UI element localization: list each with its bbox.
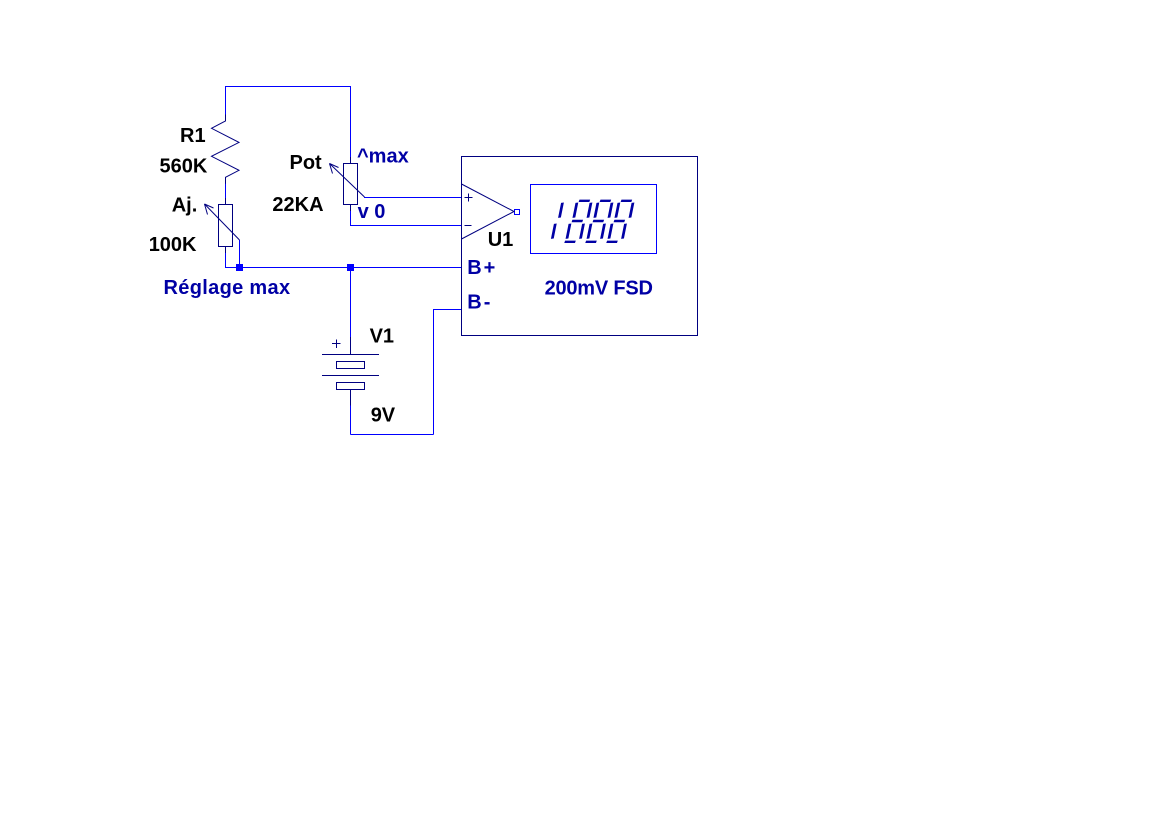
svg-text:9V: 9V (371, 404, 396, 426)
svg-text:Pot: Pot (290, 152, 323, 174)
svg-text:560K: 560K (160, 156, 208, 178)
svg-text:^max: ^max (357, 146, 409, 168)
svg-text:v 0: v 0 (358, 201, 386, 223)
svg-text:Réglage max: Réglage max (164, 277, 291, 299)
svg-text:100K: 100K (149, 234, 197, 256)
svg-text:Aj.: Aj. (172, 194, 198, 216)
svg-text:R1: R1 (180, 125, 206, 147)
svg-text:B+: B+ (467, 257, 497, 279)
svg-text:U1: U1 (488, 229, 514, 251)
svg-text:200mV FSD: 200mV FSD (545, 278, 653, 300)
svg-text:22KA: 22KA (272, 194, 323, 216)
svg-text:B-: B- (467, 292, 492, 314)
svg-text:V1: V1 (370, 325, 394, 347)
